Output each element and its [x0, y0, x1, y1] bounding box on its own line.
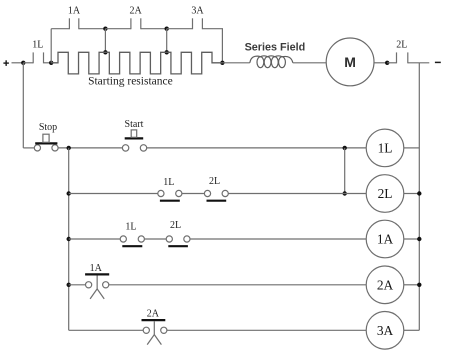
wire (tap down to resistor): [166, 29, 168, 53]
svg-text:Starting resistance: Starting resistance: [88, 76, 173, 88]
wire: [293, 62, 326, 64]
wire: [222, 62, 249, 64]
svg-text:1L: 1L: [378, 140, 393, 155]
svg-text:M: M: [344, 54, 356, 70]
node A (junction + rail): [21, 61, 25, 65]
contact 1A-nc (NC): [85, 274, 109, 299]
wire: [228, 193, 366, 195]
node D: [165, 27, 169, 31]
wire: [79, 28, 106, 30]
node H: [385, 61, 389, 65]
node rung4-left: [67, 283, 71, 287]
wire (right rail): [418, 63, 420, 331]
pushbutton Stop (NC): [34, 134, 58, 151]
svg-text:1L: 1L: [163, 177, 174, 188]
svg-text:2L: 2L: [378, 186, 393, 201]
node rung3-left: [67, 237, 71, 241]
wire (rung 3): [69, 238, 121, 240]
wire: [182, 193, 205, 195]
resistor R (starting resistance): [51, 52, 222, 74]
wire: [190, 238, 366, 240]
node F: [67, 146, 71, 150]
node C: [103, 27, 107, 31]
coil 2L: [366, 175, 404, 213]
node D' (tap on resistor): [165, 50, 169, 54]
contact 3A: [193, 18, 203, 29]
contact 1A: [69, 18, 78, 29]
wire: [167, 28, 193, 30]
terminal -: [435, 61, 441, 63]
wire: [202, 29, 222, 63]
wire: [404, 329, 420, 331]
motor M1: [326, 38, 374, 86]
wire: [374, 62, 387, 64]
contact 2L (main line): [397, 52, 408, 63]
wire: [404, 147, 420, 149]
svg-text:1A: 1A: [377, 232, 394, 247]
node C' (tap on resistor): [103, 50, 107, 54]
wire (seal-in link): [344, 148, 346, 194]
svg-text:2L: 2L: [209, 176, 220, 187]
coil 1L: [366, 129, 404, 167]
svg-text:2A: 2A: [129, 5, 142, 16]
wire: [141, 28, 167, 30]
svg-text:1L: 1L: [32, 40, 43, 51]
wire (rung 1): [23, 147, 34, 149]
contact 2L-a (NO): [204, 190, 228, 200]
contact 2A-nc (NC): [142, 320, 167, 345]
wire: [105, 28, 130, 30]
contact 2L-b (NO): [166, 236, 190, 246]
svg-text:Stop: Stop: [39, 122, 57, 133]
wire: [51, 28, 69, 30]
node rail-1A: [417, 237, 421, 241]
wire (rung 5): [69, 329, 144, 331]
wire: [167, 329, 366, 331]
coil 1A: [366, 220, 404, 258]
svg-text:2L: 2L: [396, 39, 407, 50]
wire (left rail down to stop rung): [22, 63, 24, 148]
wire: [404, 284, 420, 286]
node rung2-left: [67, 191, 71, 195]
svg-text:1L: 1L: [125, 221, 136, 232]
wire: [23, 62, 33, 64]
svg-text:1A: 1A: [90, 263, 103, 274]
pushbutton Start (NO): [122, 130, 146, 151]
wire: [387, 62, 396, 64]
wire: [109, 284, 366, 286]
wire (rung 4): [69, 284, 86, 286]
svg-text:1A: 1A: [68, 5, 81, 16]
contact 1L-a (NO): [158, 190, 182, 200]
contact 1L (main line): [33, 52, 43, 63]
terminal +: [3, 60, 8, 66]
wire (control rail down): [68, 148, 70, 330]
wire: [12, 62, 24, 64]
coil 2A: [366, 266, 404, 304]
svg-text:3A: 3A: [191, 5, 204, 16]
node rail-2L: [417, 191, 421, 195]
wire: [404, 238, 420, 240]
wire: [404, 193, 420, 195]
wire (rung 2): [69, 193, 158, 195]
node G2: [343, 191, 347, 195]
svg-text:2A: 2A: [377, 277, 394, 292]
wire: [58, 147, 122, 149]
svg-text:3A: 3A: [377, 323, 394, 338]
wire (up to accelerating contact line): [50, 29, 52, 63]
wire: [44, 62, 52, 64]
wire: [147, 147, 367, 149]
node E: [220, 61, 224, 65]
coil 3A: [366, 312, 404, 350]
inductor L1 (series field): [250, 56, 293, 68]
svg-text:Series Field: Series Field: [245, 41, 306, 53]
svg-text:Start: Start: [125, 119, 144, 130]
wire: [408, 62, 430, 64]
svg-text:2L: 2L: [170, 220, 181, 231]
contact 1L-b (NO): [120, 236, 144, 246]
contact 2A: [131, 18, 141, 29]
node G1: [343, 146, 347, 150]
node B: [49, 61, 53, 65]
svg-text:2A: 2A: [147, 309, 160, 320]
node rail-2A: [417, 283, 421, 287]
wire (tap down to resistor): [104, 29, 106, 53]
wire: [144, 238, 166, 240]
